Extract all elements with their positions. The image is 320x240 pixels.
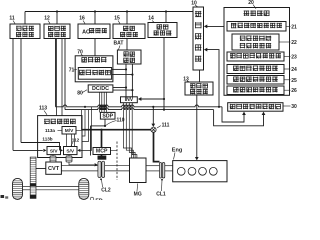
svg-text:23: 23	[291, 55, 297, 61]
svg-text:M/V: M/V	[65, 128, 74, 134]
svg-text:15: 15	[114, 16, 120, 22]
svg-text:14: 14	[148, 16, 154, 22]
svg-text:113: 113	[39, 106, 47, 112]
svg-text:30: 30	[291, 104, 297, 110]
svg-text:80: 80	[77, 91, 83, 97]
svg-text:AC: AC	[82, 29, 90, 35]
svg-text:16: 16	[79, 16, 85, 22]
svg-text:111: 111	[162, 123, 170, 129]
svg-text:CL2: CL2	[101, 188, 111, 194]
svg-text:24: 24	[291, 67, 297, 73]
svg-text:SDP: SDP	[102, 114, 113, 120]
svg-text:S/V: S/V	[50, 149, 59, 155]
svg-text:INV: INV	[125, 97, 134, 103]
svg-text:Eng: Eng	[172, 148, 182, 154]
svg-text:113a: 113a	[45, 128, 55, 133]
svg-text:S/V: S/V	[66, 149, 75, 155]
svg-text:FD: FD	[95, 199, 102, 201]
svg-text:12: 12	[44, 16, 50, 22]
svg-text:MG: MG	[134, 192, 142, 198]
svg-text:BAT: BAT	[114, 41, 124, 47]
svg-text:MCP: MCP	[96, 149, 108, 155]
svg-text:26: 26	[291, 88, 297, 94]
svg-text:22: 22	[291, 40, 297, 46]
svg-text:CL1: CL1	[156, 192, 166, 198]
svg-text:DC/DC: DC/DC	[92, 86, 109, 92]
svg-text:70: 70	[77, 50, 83, 56]
svg-text:25: 25	[291, 78, 297, 84]
svg-text:71: 71	[69, 68, 75, 74]
svg-text:112: 112	[72, 138, 80, 143]
svg-text:113b: 113b	[42, 137, 52, 142]
svg-text:CVT: CVT	[48, 166, 60, 172]
svg-text:21: 21	[291, 24, 297, 30]
svg-text:11: 11	[9, 16, 15, 22]
